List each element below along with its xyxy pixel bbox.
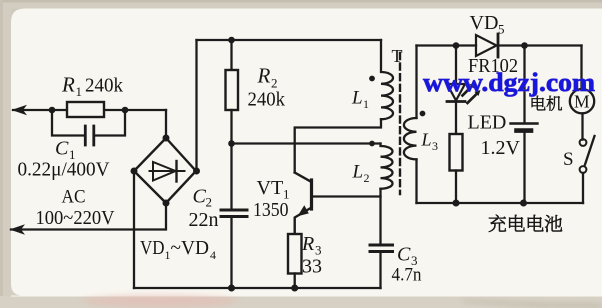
transistor VT1 base bar [310, 180, 313, 209]
wire R2 to junction [230, 110, 232, 144]
label dianji (motor, Chinese) [532, 96, 562, 111]
LED arrows [463, 86, 473, 96]
wire R2 branch upper [230, 40, 232, 70]
node dot bridge bottom [163, 200, 170, 207]
svg-text:4.7n: 4.7n [392, 265, 422, 286]
wire secondary bottom rail [417, 202, 584, 204]
arrowhead LED ray 2 [475, 90, 481, 96]
wire primary bottom rail [134, 287, 381, 289]
node dot battery branch bottom [520, 200, 527, 207]
node dot R1 left [49, 107, 56, 114]
svg-text:R: R [301, 233, 314, 255]
wire AC line 2 (bottom left) [11, 203, 166, 230]
svg-text:C: C [397, 244, 411, 266]
svg-text:L: L [351, 88, 363, 109]
node dot bridge top [163, 135, 170, 142]
svg-text:1: 1 [363, 97, 369, 111]
switch S contacts [580, 139, 587, 146]
svg-text:~VD: ~VD [171, 237, 210, 259]
dark streak bottom right [462, 300, 602, 307]
arrowhead LED ray 1 [470, 83, 476, 89]
node dot bridge left [131, 168, 138, 175]
wire motor to switch [581, 113, 583, 139]
transistor VT1 emitter diagonal [295, 208, 312, 235]
wire motor branch upper [580, 46, 582, 90]
svg-text:L: L [352, 162, 364, 183]
svg-text:4: 4 [210, 248, 216, 262]
node dot LED branch top [453, 42, 460, 49]
node dot R2 bottom junction [228, 140, 235, 147]
inductor L2 winding [381, 144, 393, 189]
battery 1.2V plates [511, 122, 538, 124]
svg-text:3: 3 [432, 139, 438, 153]
switch S blade [585, 136, 595, 165]
wire R3 to bottom rail [294, 274, 296, 289]
transformer core dashed line [399, 53, 401, 194]
resistor R2 box [226, 70, 239, 110]
svg-text:T: T [392, 46, 403, 66]
svg-text:LED: LED [468, 112, 507, 134]
svg-text:1: 1 [76, 84, 83, 99]
wire battery branch upper [523, 46, 525, 123]
bridge inner diode [150, 170, 185, 172]
wire battery to bottom rail [523, 133, 525, 203]
wire junction down to C2 [230, 144, 232, 209]
wire primary top rail [197, 39, 382, 41]
diode VD5 FR102 [476, 35, 497, 56]
svg-text:S: S [563, 149, 574, 170]
wire L2 bottom through base junction to C3 [379, 189, 381, 244]
wire LED to resistor [455, 103, 457, 135]
phase dot L2 [369, 141, 375, 147]
bridge rectifier diamond VD1~VD4 [134, 138, 196, 203]
svg-text:0.22μ/400V: 0.22μ/400V [18, 159, 111, 181]
svg-text:2: 2 [206, 195, 213, 210]
wire secondary top rail right of VD5 [499, 44, 582, 46]
motor M circle [570, 89, 594, 113]
svg-text:L: L [421, 130, 432, 150]
node dot R1 right [122, 107, 129, 114]
node dot LED branch bottom [453, 200, 460, 207]
wire DC minus drop from bridge left vertex [133, 171, 135, 288]
phase dot L3 [420, 111, 426, 117]
svg-text:5: 5 [498, 22, 505, 37]
wire corner into bridge top [165, 110, 167, 138]
svg-text:C: C [193, 186, 207, 208]
wire secondary left rail upper [415, 46, 417, 119]
node dot battery branch top [521, 42, 528, 49]
label chongdiandianchi (rechargeable battery, Chinese) [489, 215, 562, 232]
svg-text:100~220V: 100~220V [36, 207, 116, 229]
svg-text:R: R [61, 73, 75, 97]
node dot R2 top [228, 37, 235, 44]
svg-text:www.dgzj.com: www.dgzj.com [423, 68, 595, 97]
resistor R3 box [288, 234, 302, 274]
pink smudge bottom [82, 295, 238, 308]
inductor L1 winding [381, 40, 393, 119]
phase dot L1 [369, 76, 375, 82]
wire secondary left rail lower [415, 159, 417, 203]
capacitor C3 plates [370, 245, 393, 252]
wire feedback feed line to L2 [232, 142, 381, 144]
node dot C2 bottom [228, 285, 235, 292]
arrowhead AC line 1 [12, 105, 28, 115]
wire L1 bottom to collector [295, 119, 381, 172]
resistor box below LED [450, 134, 463, 171]
arrowhead AC line 2 [10, 224, 26, 234]
svg-text:VD: VD [470, 12, 499, 34]
LED diode triangle [447, 84, 465, 101]
svg-text:AC: AC [62, 187, 86, 208]
wire DC plus rail up from bridge right vertex [195, 40, 197, 171]
svg-text:240k: 240k [85, 75, 123, 97]
svg-text:1.2V: 1.2V [481, 137, 521, 159]
svg-text:1350: 1350 [253, 199, 289, 221]
wire VT1 base line [312, 195, 381, 197]
transistor VT1 collector diagonal [295, 173, 312, 183]
node dot bridge right [193, 168, 200, 175]
svg-text:VT: VT [257, 177, 284, 199]
wire C3 to bottom rail [379, 253, 381, 289]
node dot R3 bottom [291, 285, 298, 292]
wire secondary top rail left of VD5 [417, 44, 477, 46]
wire C1 parallel branch [52, 110, 125, 136]
capacitor C2 plates [221, 210, 247, 217]
svg-text:22n: 22n [189, 209, 219, 231]
resistor R1 box [67, 102, 104, 117]
svg-text:C: C [55, 138, 69, 160]
wire AC line 1 (top left) [13, 109, 166, 111]
svg-text:240k: 240k [248, 89, 286, 111]
inductor L3 winding [404, 118, 417, 159]
wire resistor to bottom rail [455, 171, 457, 204]
arrowhead VT1 emitter [298, 205, 309, 216]
svg-text:VD: VD [140, 237, 165, 259]
wire LED branch upper [455, 46, 457, 84]
wire C2 to bottom rail [230, 218, 232, 288]
capacitor C1 plates [85, 126, 94, 145]
wire switch to bottom rail [582, 173, 584, 203]
svg-text:2: 2 [364, 171, 370, 185]
svg-text:R: R [257, 64, 271, 88]
svg-text:33: 33 [302, 256, 322, 278]
